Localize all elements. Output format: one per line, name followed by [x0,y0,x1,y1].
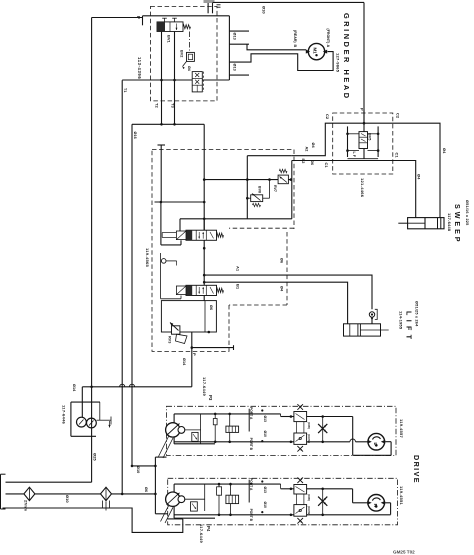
svg-text:Ø14: Ø14 [182,358,186,366]
svg-text:C1: C1 [324,163,329,169]
svg-text:T1: T1 [123,88,127,92]
svg-text:T3: T3 [171,103,176,108]
svg-text:Ø13: Ø13 [263,416,267,423]
svg-text:A: A [326,45,330,48]
svg-text:Ø6: Ø6 [310,160,314,165]
svg-text:Ø4: Ø4 [311,143,315,149]
svg-text:127-9865: 127-9865 [336,53,341,73]
svg-text:C2: C2 [325,114,330,120]
svg-text:119-4565: 119-4565 [145,248,150,268]
svg-text:RV7: RV7 [273,185,277,192]
svg-text:Ø13: Ø13 [233,64,237,71]
svg-text:T2: T2 [154,103,159,108]
svg-text:SWEEP: SWEEP [453,204,462,244]
svg-text:BV1: BV1 [167,35,172,44]
svg-text:A1: A1 [236,266,241,272]
svg-text:GRINDER HEAD: GRINDER HEAD [342,13,351,101]
svg-text:L F: L F [352,152,356,158]
svg-text:(REAR): (REAR) [293,30,297,43]
svg-text:(FRONT): (FRONT) [326,29,330,45]
svg-text:Ø10: Ø10 [263,431,267,438]
svg-text:27mm: 27mm [24,500,28,512]
svg-text:Ø13: Ø13 [233,33,237,40]
svg-text:Ø4: Ø4 [187,66,191,71]
svg-text:P: P [136,16,141,19]
svg-text:Ø4: Ø4 [279,286,283,292]
svg-text:117-6449: 117-6449 [202,377,207,397]
svg-text:GM25 T02: GM25 T02 [393,550,415,555]
svg-text:114-1955: 114-1955 [399,311,404,330]
svg-text:(CW): (CW) [307,494,311,501]
svg-text:A2: A2 [305,147,309,152]
svg-text:B2: B2 [301,159,305,164]
svg-text:Ø10: Ø10 [65,495,70,503]
svg-text:PORT B: PORT B [249,509,253,522]
svg-text:Ø14: Ø14 [72,384,76,392]
svg-text:117-6446: 117-6446 [62,405,67,425]
svg-text:Ø25: Ø25 [92,453,97,461]
svg-text:L: L [373,443,378,446]
svg-text:Ø4: Ø4 [416,174,421,180]
svg-text:117-6448: 117-6448 [447,213,452,232]
svg-text:Ø6: Ø6 [279,258,283,263]
svg-text:BV8: BV8 [258,186,262,193]
svg-text:P: P [192,353,197,356]
svg-text:Ø51/16 x 225: Ø51/16 x 225 [465,200,469,225]
svg-text:B1: B1 [236,284,241,290]
svg-text:Ø13: Ø13 [263,487,267,494]
svg-text:Ø6: Ø6 [209,305,213,310]
svg-text:B: B [293,45,297,48]
svg-text:(CW): (CW) [307,422,311,429]
svg-text:P4: P4 [206,526,211,532]
svg-text:LIFT: LIFT [405,311,414,343]
svg-text:C1: C1 [395,153,400,159]
svg-text:Ø16: Ø16 [133,132,137,139]
svg-text:Ø10: Ø10 [262,6,267,14]
svg-text:(CCW): (CCW) [307,506,311,515]
svg-text:M1: M1 [313,48,318,55]
svg-text:DRIVE: DRIVE [412,455,421,484]
svg-text:113-4396: 113-4396 [137,57,142,79]
svg-text:Ø4: Ø4 [442,148,447,154]
svg-text:Ø10: Ø10 [263,502,267,509]
svg-text:121-4466: 121-4466 [360,178,365,198]
svg-text:P3: P3 [208,395,213,401]
svg-text:Ø6: Ø6 [144,487,148,492]
svg-text:119-4551: 119-4551 [399,486,404,506]
svg-text:C2: C2 [396,113,401,119]
svg-text:Ø51/25 x 264: Ø51/25 x 264 [415,301,419,327]
svg-text:117-6449: 117-6449 [199,524,204,544]
svg-text:Ø10: Ø10 [136,466,140,473]
svg-text:RV3: RV3 [168,336,172,343]
svg-text:PORT B: PORT B [249,438,253,451]
svg-text:BV2: BV2 [180,50,184,57]
svg-text:119-4557: 119-4557 [399,419,404,439]
